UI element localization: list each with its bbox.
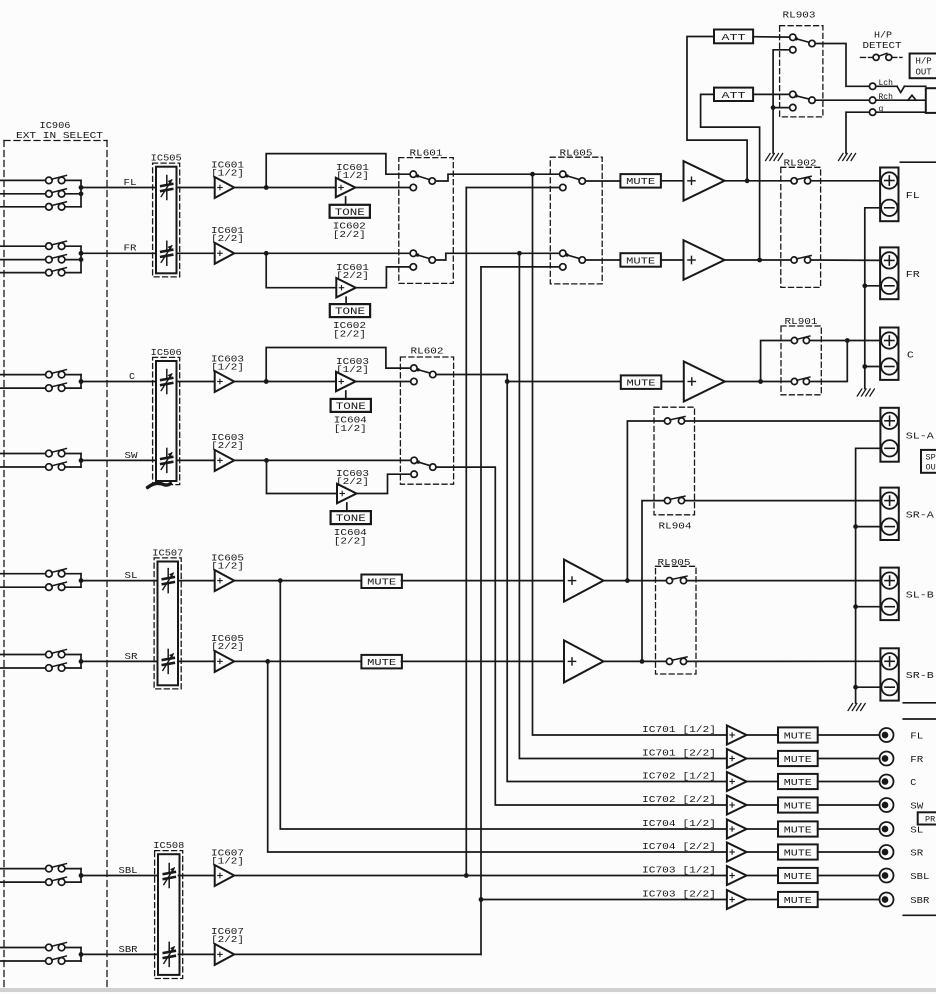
svg-text:PR: PR: [925, 814, 935, 824]
svg-text:EXT IN SELECT: EXT IN SELECT: [16, 130, 103, 141]
svg-text:SR-A: SR-A: [906, 511, 935, 521]
svg-text:RL901: RL901: [785, 316, 818, 327]
svg-text:TONE: TONE: [336, 514, 366, 525]
svg-text:IC702 [1/2]: IC702 [1/2]: [642, 771, 716, 782]
svg-text:SBR: SBR: [119, 945, 139, 955]
svg-text:RL902: RL902: [784, 158, 817, 169]
svg-text:C: C: [129, 372, 136, 382]
svg-text:SR: SR: [910, 848, 924, 858]
svg-text:IC704 [2/2]: IC704 [2/2]: [642, 841, 716, 852]
svg-text:SR: SR: [125, 652, 139, 662]
svg-text:[2/2]: [2/2]: [336, 476, 369, 487]
svg-text:SBR: SBR: [910, 896, 930, 906]
svg-text:[2/2]: [2/2]: [333, 229, 366, 240]
svg-text:MUTE: MUTE: [626, 255, 655, 266]
svg-text:[2/2]: [2/2]: [333, 328, 366, 339]
svg-text:[1/2]: [1/2]: [336, 170, 369, 181]
svg-text:IC508: IC508: [153, 840, 184, 851]
svg-text:MUTE: MUTE: [784, 895, 812, 906]
svg-text:RL903: RL903: [783, 9, 816, 20]
svg-text:RL905: RL905: [658, 557, 691, 568]
svg-text:MUTE: MUTE: [784, 871, 812, 882]
svg-text:MUTE: MUTE: [367, 577, 396, 588]
svg-text:SBL: SBL: [119, 866, 138, 876]
svg-text:IC505: IC505: [151, 153, 182, 164]
svg-text:FL: FL: [910, 731, 923, 741]
svg-text:[1/2]: [1/2]: [336, 364, 369, 375]
svg-text:SBL: SBL: [910, 872, 929, 882]
svg-text:FL: FL: [124, 178, 137, 188]
svg-text:[1/2]: [1/2]: [334, 423, 367, 434]
svg-text:TONE: TONE: [336, 402, 366, 413]
svg-text:SR-B: SR-B: [906, 671, 935, 681]
svg-text:MUTE: MUTE: [627, 378, 656, 389]
svg-text:[2/2]: [2/2]: [334, 535, 367, 546]
svg-text:IC701 [2/2]: IC701 [2/2]: [642, 748, 716, 759]
svg-text:IC507: IC507: [152, 548, 183, 559]
svg-text:IC704 [1/2]: IC704 [1/2]: [642, 818, 716, 829]
svg-text:MUTE: MUTE: [784, 754, 812, 765]
svg-text:DETECT: DETECT: [863, 41, 903, 51]
svg-text:IC702 [2/2]: IC702 [2/2]: [642, 794, 716, 805]
svg-text:MUTE: MUTE: [626, 176, 655, 187]
svg-text:OUT: OUT: [916, 68, 933, 78]
svg-text:MUTE: MUTE: [784, 730, 812, 741]
svg-text:RL904: RL904: [659, 521, 692, 532]
svg-text:C: C: [910, 778, 917, 788]
svg-text:FL: FL: [906, 191, 920, 201]
svg-text:ATT: ATT: [722, 32, 746, 43]
svg-text:RL601: RL601: [410, 147, 443, 158]
svg-text:H/P: H/P: [874, 31, 892, 41]
svg-text:SW: SW: [910, 801, 924, 811]
svg-text:FR: FR: [124, 244, 138, 254]
svg-text:FR: FR: [906, 270, 921, 280]
svg-text:IC506: IC506: [151, 347, 182, 358]
svg-text:SL-A: SL-A: [906, 432, 935, 442]
svg-text:SW: SW: [125, 451, 139, 461]
svg-text:OU: OU: [926, 463, 936, 473]
svg-text:TONE: TONE: [335, 307, 365, 318]
svg-text:SL: SL: [125, 571, 138, 581]
svg-text:MUTE: MUTE: [367, 657, 396, 668]
svg-text:IC703 [1/2]: IC703 [1/2]: [642, 865, 716, 876]
svg-text:RL602: RL602: [411, 346, 444, 357]
svg-text:ATT: ATT: [722, 90, 746, 101]
svg-text:SL-B: SL-B: [906, 591, 935, 601]
svg-text:MUTE: MUTE: [784, 824, 812, 835]
svg-text:FR: FR: [910, 755, 924, 765]
svg-text:H/P: H/P: [916, 56, 932, 66]
svg-text:TONE: TONE: [335, 208, 365, 219]
svg-text:MUTE: MUTE: [784, 847, 812, 858]
svg-text:MUTE: MUTE: [784, 800, 812, 811]
svg-text:IC703 [2/2]: IC703 [2/2]: [642, 889, 716, 900]
svg-text:MUTE: MUTE: [784, 777, 812, 788]
svg-text:RL605: RL605: [560, 147, 593, 158]
svg-text:IC701 [1/2]: IC701 [1/2]: [642, 724, 716, 735]
svg-text:[2/2]: [2/2]: [336, 270, 369, 281]
svg-text:C: C: [907, 351, 915, 361]
svg-text:SP: SP: [926, 453, 936, 463]
svg-text:SL: SL: [910, 825, 923, 835]
